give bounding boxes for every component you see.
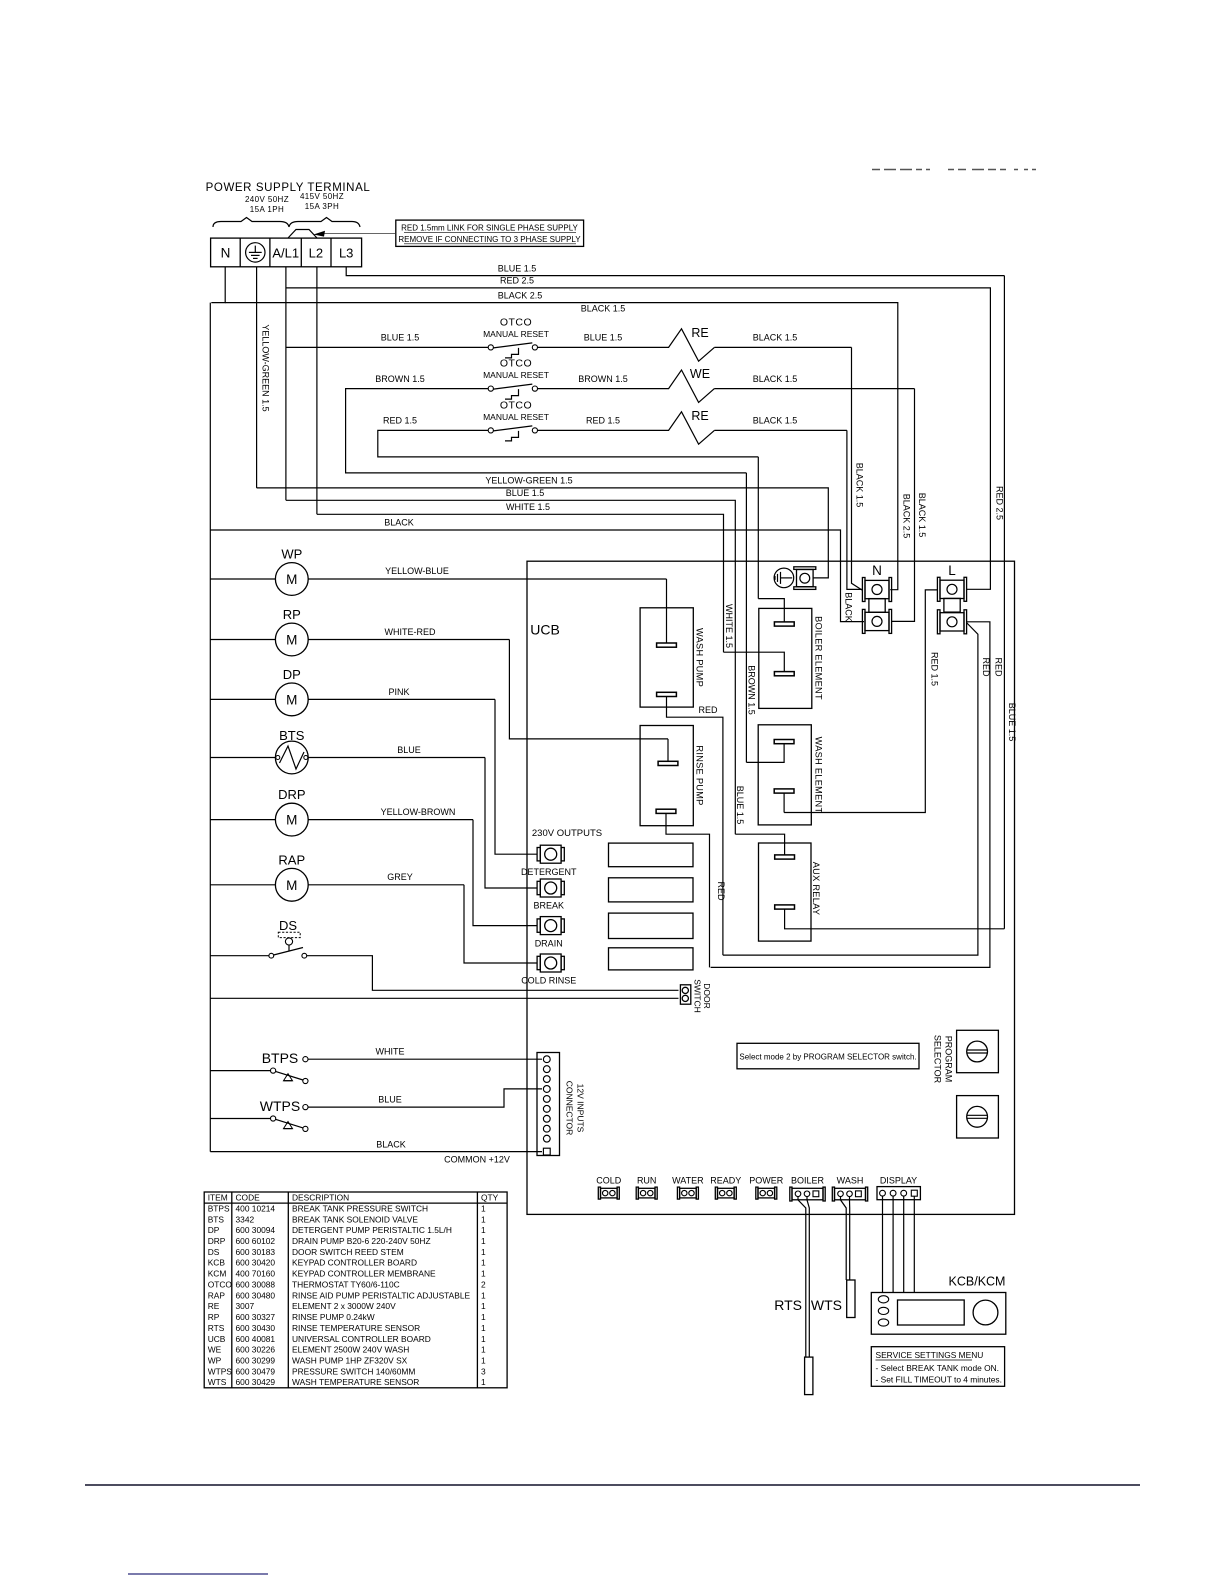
svg-text:WTS: WTS xyxy=(811,1297,842,1313)
svg-text:UCB: UCB xyxy=(208,1334,226,1344)
wire WHITE 1.5 run (L2) xyxy=(317,514,724,652)
wire RED 2.5 run to L terminal xyxy=(286,288,991,589)
svg-text:M: M xyxy=(286,692,297,707)
wire BLUE WTPS to 12V connector xyxy=(308,1089,542,1107)
svg-text:RAP: RAP xyxy=(278,852,305,867)
svg-text:WHITE: WHITE xyxy=(376,1047,405,1057)
svg-text:WATER: WATER xyxy=(672,1175,704,1185)
svg-text:BREAK TANK SOLENOID VALVE: BREAK TANK SOLENOID VALVE xyxy=(292,1214,418,1224)
connector DRAIN xyxy=(540,917,561,935)
boiler element top contact fed by RED riser xyxy=(758,599,784,623)
wire A/L1 down xyxy=(285,267,287,501)
wire rail to DRP xyxy=(210,819,275,821)
svg-text:600 60102: 600 60102 xyxy=(236,1236,276,1246)
blank rectangle 2 xyxy=(609,878,694,902)
wire BLUE down to BREAK xyxy=(485,758,537,889)
sensor RTS probe body xyxy=(805,1357,813,1395)
svg-text:OTCO: OTCO xyxy=(500,358,532,370)
svg-text:1: 1 xyxy=(481,1377,486,1387)
terminal earth symbol xyxy=(246,243,265,262)
riser BROWN down xyxy=(745,473,747,763)
svg-text:BLACK 2.5: BLACK 2.5 xyxy=(902,494,912,539)
svg-text:BLACK 1.5: BLACK 1.5 xyxy=(855,463,865,508)
wire OTCO3 output to N top xyxy=(847,430,863,589)
svg-text:KCM: KCM xyxy=(208,1269,227,1279)
svg-text:AUX RELAY: AUX RELAY xyxy=(811,862,821,916)
svg-text:POWER: POWER xyxy=(749,1175,784,1185)
wire BLUE 1.5 A/L1 to OTCO1 xyxy=(286,346,488,348)
svg-text:N: N xyxy=(872,563,882,578)
svg-text:YELLOW-BROWN: YELLOW-BROWN xyxy=(381,807,456,817)
svg-text:DRP: DRP xyxy=(278,787,305,802)
wire N down xyxy=(211,267,225,303)
svg-text:RED 1.5mm LINK FOR SINGLE PHAS: RED 1.5mm LINK FOR SINGLE PHASE SUPPLY xyxy=(401,224,578,233)
wire RED U-return OTCO3 xyxy=(378,430,759,457)
arrow from note box to link xyxy=(318,233,395,235)
wire earth yellow-green down xyxy=(256,267,258,488)
svg-text:600 30094: 600 30094 xyxy=(236,1225,276,1235)
svg-text:DRAIN: DRAIN xyxy=(535,938,563,948)
wire GREY down to COLD RINSE xyxy=(464,885,537,963)
svg-text:3342: 3342 xyxy=(236,1214,255,1224)
svg-text:BTPS: BTPS xyxy=(262,1050,299,1066)
wire OTCO2/WE output to N bottom right xyxy=(892,389,915,622)
note box select mode 2 xyxy=(737,1043,919,1069)
svg-text:YELLOW-BLUE: YELLOW-BLUE xyxy=(385,566,449,576)
svg-text:RED: RED xyxy=(993,657,1003,677)
program selector switch 2 xyxy=(957,1096,999,1138)
terminal L link xyxy=(944,598,960,612)
faint header dashes xyxy=(872,169,880,171)
blank rectangle 1 xyxy=(609,843,694,867)
svg-text:Select mode 2 by PROGRAM SELEC: Select mode 2 by PROGRAM SELECTOR switch… xyxy=(739,1053,916,1062)
wire RED wash pump output xyxy=(667,696,723,955)
wire PINK from DP xyxy=(308,698,495,700)
svg-text:BLACK 1.5: BLACK 1.5 xyxy=(753,333,798,343)
svg-text:M: M xyxy=(286,572,297,587)
link (removable) between A/L1 and L2 xyxy=(288,230,317,239)
svg-text:M: M xyxy=(286,633,297,648)
svg-text:CONNECTOR: CONNECTOR xyxy=(565,1081,575,1136)
svg-text:COMMON +12V: COMMON +12V xyxy=(444,1154,510,1164)
svg-text:SWITCH: SWITCH xyxy=(693,979,703,1013)
wire rail to WTPS xyxy=(210,1118,270,1120)
svg-text:MANUAL RESET: MANUAL RESET xyxy=(483,370,549,380)
svg-text:OTCO: OTCO xyxy=(500,316,532,328)
svg-text:KEYPAD CONTROLLER BOARD: KEYPAD CONTROLLER BOARD xyxy=(292,1258,417,1268)
service settings menu box xyxy=(871,1347,1004,1387)
svg-text:CODE: CODE xyxy=(236,1193,261,1203)
svg-text:1: 1 xyxy=(481,1345,486,1355)
svg-text:600 30429: 600 30429 xyxy=(236,1377,276,1387)
svg-text:BLUE: BLUE xyxy=(397,745,421,755)
svg-text:RE: RE xyxy=(691,326,708,340)
svg-text:SELECTOR: SELECTOR xyxy=(933,1035,943,1084)
svg-text:L: L xyxy=(948,563,956,578)
svg-text:DOOR: DOOR xyxy=(702,983,712,1009)
svg-text:600 30299: 600 30299 xyxy=(236,1356,276,1366)
svg-text:1: 1 xyxy=(481,1203,486,1213)
wire BLUE from BTS xyxy=(308,757,485,759)
svg-text:600 30430: 600 30430 xyxy=(236,1323,276,1333)
svg-text:600 30479: 600 30479 xyxy=(236,1366,276,1376)
svg-text:BOILER: BOILER xyxy=(791,1175,825,1185)
parts table xyxy=(204,1192,507,1388)
sensor RTS probe wires xyxy=(798,1197,806,1358)
wire BLACK 1.5 out of RE xyxy=(714,346,851,348)
svg-text:RE: RE xyxy=(208,1301,220,1311)
relay WASH ELEMENT xyxy=(758,725,811,825)
svg-text:REMOVE IF CONNECTING TO 3 PHAS: REMOVE IF CONNECTING TO 3 PHASE SUPPLY xyxy=(398,235,581,244)
svg-text:PINK: PINK xyxy=(388,687,409,697)
heating element RE xyxy=(538,412,715,444)
svg-text:DETERGENT: DETERGENT xyxy=(521,867,577,877)
footer rule xyxy=(85,1484,1140,1486)
wire BROWN U-return OTCO2 xyxy=(346,389,747,473)
svg-text:600 30480: 600 30480 xyxy=(236,1290,276,1300)
svg-text:600 30327: 600 30327 xyxy=(236,1312,276,1322)
wire OTCO1 output to N top (diagonal) xyxy=(852,347,863,590)
wash element top contact fed by BROWN xyxy=(774,740,794,744)
svg-text:BLACK 2.5: BLACK 2.5 xyxy=(498,290,543,300)
connector COLD RINSE xyxy=(540,954,561,972)
svg-text:RP: RP xyxy=(283,607,301,622)
svg-text:RED 2.5: RED 2.5 xyxy=(500,276,534,286)
svg-text:MANUAL RESET: MANUAL RESET xyxy=(483,329,549,339)
svg-text:BLUE: BLUE xyxy=(378,1094,402,1104)
wire WHITE-RED down to rinse pump relay xyxy=(509,640,668,739)
svg-text:BTPS: BTPS xyxy=(208,1203,230,1213)
svg-text:RTS: RTS xyxy=(208,1323,225,1333)
connector BREAK xyxy=(540,879,561,897)
svg-text:DETERGENT PUMP PERISTALTIC 1.5: DETERGENT PUMP PERISTALTIC 1.5L/H xyxy=(292,1225,452,1235)
relay BOILER ELEMENT xyxy=(759,608,812,708)
svg-text:RP: RP xyxy=(208,1312,220,1322)
earth terminal block xyxy=(797,570,814,587)
wire L2 down xyxy=(316,267,318,515)
svg-text:240V 50HZ: 240V 50HZ xyxy=(245,195,289,204)
svg-text:OTCO: OTCO xyxy=(500,399,532,411)
svg-text:RINSE PUMP 0.24kW: RINSE PUMP 0.24kW xyxy=(292,1312,375,1322)
svg-text:1: 1 xyxy=(481,1236,486,1246)
svg-text:WE: WE xyxy=(690,367,710,381)
svg-text:12V INPUTS: 12V INPUTS xyxy=(576,1084,586,1133)
wire BLUE 1.5 run (A/L1) xyxy=(286,500,735,834)
svg-text:ELEMENT 2500W 240V WASH: ELEMENT 2500W 240V WASH xyxy=(292,1345,409,1355)
svg-text:BLUE 1.5: BLUE 1.5 xyxy=(584,333,623,343)
svg-text:WASH PUMP: WASH PUMP xyxy=(695,628,705,687)
svg-text:ITEM: ITEM xyxy=(208,1193,228,1203)
svg-text:WASH PUMP 1HP ZF320V SX: WASH PUMP 1HP ZF320V SX xyxy=(292,1356,408,1366)
wire rail to RP xyxy=(210,639,275,641)
svg-text:600 30088: 600 30088 xyxy=(236,1279,276,1289)
svg-text:BREAK TANK PRESSURE SWITCH: BREAK TANK PRESSURE SWITCH xyxy=(292,1203,428,1213)
svg-text:PRESSURE SWITCH 140/60MM: PRESSURE SWITCH 140/60MM xyxy=(292,1366,415,1376)
wire rail to WP xyxy=(210,578,275,580)
svg-text:1: 1 xyxy=(481,1356,486,1366)
svg-text:KCB/KCM: KCB/KCM xyxy=(949,1275,1006,1289)
svg-text:BLACK 1.5: BLACK 1.5 xyxy=(581,304,626,314)
svg-text:MANUAL RESET: MANUAL RESET xyxy=(483,412,549,422)
svg-text:WHITE-RED: WHITE-RED xyxy=(385,627,436,637)
svg-text:RED 1.5: RED 1.5 xyxy=(586,416,620,426)
terminal L bottom xyxy=(940,613,964,631)
svg-text:BLACK: BLACK xyxy=(376,1139,406,1149)
svg-text:THERMOSTAT TY60/6-110C: THERMOSTAT TY60/6-110C xyxy=(292,1279,400,1289)
heating element RE xyxy=(538,329,715,361)
svg-text:RE: RE xyxy=(691,409,708,423)
svg-text:WASH TEMPERATURE SENSOR: WASH TEMPERATURE SENSOR xyxy=(292,1377,419,1387)
wire GREY from RAP xyxy=(308,884,464,886)
wire BLACK 2.5 run to N terminal xyxy=(225,303,898,590)
wire YELLOW-BLUE from WP xyxy=(308,578,666,580)
wire BLACK 1.5 out of RE xyxy=(714,429,847,431)
svg-text:BLUE 1.5: BLUE 1.5 xyxy=(506,488,545,498)
svg-text:WHITE 1.5: WHITE 1.5 xyxy=(506,502,550,512)
svg-text:15A 3PH: 15A 3PH xyxy=(305,202,339,211)
svg-text:WTPS: WTPS xyxy=(260,1098,300,1114)
terminal N link xyxy=(869,599,885,613)
svg-text:BROWN 1.5: BROWN 1.5 xyxy=(375,374,425,384)
svg-text:1: 1 xyxy=(481,1334,486,1344)
svg-text:SERVICE SETTINGS MENU: SERVICE SETTINGS MENU xyxy=(876,1350,984,1360)
svg-text:COLD RINSE: COLD RINSE xyxy=(521,976,576,986)
sensor WTS probe body xyxy=(847,1280,855,1318)
svg-text:DISPLAY: DISPLAY xyxy=(880,1175,917,1185)
svg-text:M: M xyxy=(286,878,297,893)
svg-text:600 30183: 600 30183 xyxy=(236,1247,276,1257)
brace left (single phase range) xyxy=(213,218,289,228)
wire rail to door switch connector xyxy=(210,997,678,999)
svg-text:3007: 3007 xyxy=(236,1301,255,1311)
wash element bottom contact to RED 1.5 xyxy=(774,789,794,793)
svg-text:WTS: WTS xyxy=(208,1377,227,1387)
svg-text:DESCRIPTION: DESCRIPTION xyxy=(292,1193,349,1203)
wire WHITE-RED from RP xyxy=(308,639,509,641)
wire DS to door switch connector xyxy=(307,956,679,991)
wire BLACK 1.5 out of WE xyxy=(714,388,914,390)
wire rail to RAP xyxy=(210,884,275,886)
blank rectangle 3 (bold) xyxy=(609,913,694,938)
rinse pump relay top contact xyxy=(667,739,669,762)
svg-text:BTS: BTS xyxy=(208,1214,225,1224)
wire BLACK common run xyxy=(210,530,864,622)
svg-text:WTPS: WTPS xyxy=(208,1366,233,1376)
svg-text:READY: READY xyxy=(710,1175,741,1185)
wire PINK down to DETERGENT xyxy=(495,699,537,854)
svg-text:1: 1 xyxy=(481,1323,486,1333)
svg-text:DRAIN PUMP B20-6 220-240V 50HZ: DRAIN PUMP B20-6 220-240V 50HZ xyxy=(292,1236,431,1246)
svg-text:DP: DP xyxy=(208,1225,220,1235)
svg-text:DS: DS xyxy=(208,1247,220,1257)
svg-text:YELLOW-GREEN 1.5: YELLOW-GREEN 1.5 xyxy=(261,324,271,411)
svg-text:600 40081: 600 40081 xyxy=(236,1334,276,1344)
svg-text:- Select BREAK TANK mode ON.: - Select BREAK TANK mode ON. xyxy=(876,1363,1000,1373)
connector DOOR SWITCH xyxy=(680,985,690,1004)
svg-text:L2: L2 xyxy=(309,246,323,261)
svg-text:WHITE 1.5: WHITE 1.5 xyxy=(724,604,734,648)
svg-text:RED 1.5: RED 1.5 xyxy=(929,652,939,686)
display wires to KCB xyxy=(882,1196,884,1292)
svg-text:WASH: WASH xyxy=(837,1175,864,1185)
svg-text:RTS: RTS xyxy=(774,1297,802,1313)
UCB universal controller board box xyxy=(527,561,1015,1214)
wire BLACK rail to 12V connector xyxy=(210,1151,542,1153)
wash pump relay top contact xyxy=(666,579,668,643)
svg-text:UCB: UCB xyxy=(530,622,560,638)
svg-text:- Set FILL TIMEOUT to 4 minute: - Set FILL TIMEOUT to 4 minutes. xyxy=(876,1375,1002,1385)
svg-text:BROWN 1.5: BROWN 1.5 xyxy=(747,665,757,715)
svg-text:BLUE 1.5: BLUE 1.5 xyxy=(735,786,745,825)
svg-text:1: 1 xyxy=(481,1290,486,1300)
svg-text:1: 1 xyxy=(481,1247,486,1257)
connector DETERGENT xyxy=(540,845,561,863)
svg-text:RED 1.5: RED 1.5 xyxy=(383,416,417,426)
svg-text:WE: WE xyxy=(208,1345,222,1355)
wire YELLOW-BROWN down to DRAIN xyxy=(473,820,537,926)
svg-text:1: 1 xyxy=(481,1214,486,1224)
boiler element bottom contact fed by WHITE xyxy=(724,652,785,672)
svg-text:400 10214: 400 10214 xyxy=(236,1203,276,1213)
wire BLUE 1.5 from L3 down right side xyxy=(1003,276,1005,929)
aux relay bottom contact to BLUE (L3) xyxy=(775,905,795,909)
svg-text:BLACK 1.5: BLACK 1.5 xyxy=(753,416,798,426)
wire rail to BTS xyxy=(210,757,275,759)
svg-text:ELEMENT 2 x 3000W 240V: ELEMENT 2 x 3000W 240V xyxy=(292,1301,396,1311)
relay RINSE PUMP xyxy=(640,726,693,826)
svg-text:DS: DS xyxy=(279,918,297,933)
brace right (three phase range) xyxy=(289,218,360,228)
svg-text:3: 3 xyxy=(481,1366,486,1376)
svg-text:RED: RED xyxy=(698,705,718,715)
terminal N bottom xyxy=(865,612,889,630)
svg-text:DRP: DRP xyxy=(208,1236,226,1246)
svg-text:RED 2.5: RED 2.5 xyxy=(995,486,1005,520)
svg-text:1: 1 xyxy=(481,1301,486,1311)
svg-text:BOILER ELEMENT: BOILER ELEMENT xyxy=(814,616,824,700)
wire L bottom right to rinse pump (RED) xyxy=(711,622,990,968)
svg-text:WP: WP xyxy=(281,547,302,562)
riser RED down to boiler xyxy=(757,457,759,599)
svg-text:BROWN 1.5: BROWN 1.5 xyxy=(578,374,628,384)
relay AUX RELAY xyxy=(759,843,812,941)
svg-text:L3: L3 xyxy=(339,246,353,261)
svg-text:600 30420: 600 30420 xyxy=(236,1258,276,1268)
svg-text:QTY: QTY xyxy=(481,1193,499,1203)
svg-text:BLUE 1.5: BLUE 1.5 xyxy=(1007,703,1017,742)
earth symbol at UCB xyxy=(774,568,794,588)
wire rinse pump output xyxy=(666,813,710,967)
note box: RED 1.5mm LINK xyxy=(396,220,584,246)
svg-text:DP: DP xyxy=(283,667,301,682)
svg-text:600 30226: 600 30226 xyxy=(236,1345,276,1355)
sensor WTS probe wires xyxy=(841,1197,847,1280)
svg-text:OTCO: OTCO xyxy=(208,1279,233,1289)
svg-text:BLACK 1.5: BLACK 1.5 xyxy=(753,374,798,384)
svg-text:BLACK: BLACK xyxy=(843,592,853,622)
connector 12V INPUTS xyxy=(537,1053,560,1156)
svg-text:A/L1: A/L1 xyxy=(272,246,299,261)
svg-text:2: 2 xyxy=(481,1279,486,1289)
svg-text:1: 1 xyxy=(481,1258,486,1268)
svg-text:RUN: RUN xyxy=(637,1175,657,1185)
left rail (common black) xyxy=(209,303,211,1152)
footer link line xyxy=(128,1573,268,1575)
wire L bottom diagonal to wash pump (RED) xyxy=(723,623,978,956)
svg-text:DOOR SWITCH REED STEM: DOOR SWITCH REED STEM xyxy=(292,1247,404,1257)
rinse pump relay bottom contact xyxy=(656,809,676,813)
wire WHITE BTPS to 12V connector xyxy=(308,1058,542,1060)
svg-text:1: 1 xyxy=(481,1312,486,1322)
svg-text:RINSE TEMPERATURE SENSOR: RINSE TEMPERATURE SENSOR xyxy=(292,1323,420,1333)
wire L3 down xyxy=(346,267,1004,276)
svg-text:BLACK 1.5: BLACK 1.5 xyxy=(917,493,927,538)
svg-text:RED: RED xyxy=(716,881,726,901)
svg-text:RINSE PUMP: RINSE PUMP xyxy=(695,745,705,805)
svg-text:415V 50HZ: 415V 50HZ xyxy=(300,192,344,201)
svg-text:M: M xyxy=(286,813,297,828)
svg-text:BLUE 1.5: BLUE 1.5 xyxy=(381,333,420,343)
svg-text:COLD: COLD xyxy=(596,1175,622,1185)
aux relay top contact fed by BLUE 1.5 xyxy=(735,834,784,855)
wire YELLOW-BROWN from DRP xyxy=(308,819,473,821)
svg-text:KCB: KCB xyxy=(208,1258,226,1268)
svg-text:1: 1 xyxy=(481,1225,486,1235)
svg-text:WASH ELEMENT: WASH ELEMENT xyxy=(814,737,824,814)
svg-text:WP: WP xyxy=(208,1356,222,1366)
svg-text:UNIVERSAL CONTROLLER BOARD: UNIVERSAL CONTROLLER BOARD xyxy=(292,1334,431,1344)
relay WASH PUMP xyxy=(640,608,693,707)
blank rectangle 4 xyxy=(609,948,694,970)
wire rail to BTPS xyxy=(210,1070,270,1072)
wire YELLOW-GREEN 1.5 run xyxy=(257,488,829,578)
svg-text:400 70160: 400 70160 xyxy=(236,1269,276,1279)
svg-text:N: N xyxy=(221,246,231,261)
svg-text:BLACK: BLACK xyxy=(384,518,414,528)
svg-text:1: 1 xyxy=(481,1269,486,1279)
svg-text:POWER SUPPLY TERMINAL: POWER SUPPLY TERMINAL xyxy=(206,182,371,194)
program selector switch 1 xyxy=(957,1030,999,1072)
svg-text:RAP: RAP xyxy=(208,1290,226,1300)
terminal block power supply xyxy=(211,238,362,267)
svg-text:BLUE 1.5: BLUE 1.5 xyxy=(498,263,537,273)
heating element WE xyxy=(538,370,715,402)
wash pump relay bottom contact xyxy=(657,692,677,696)
svg-text:BREAK: BREAK xyxy=(533,901,564,911)
svg-text:PROGRAM: PROGRAM xyxy=(944,1036,954,1083)
svg-text:15A 1PH: 15A 1PH xyxy=(250,205,284,214)
wire rail to DP xyxy=(210,698,275,700)
svg-text:RINSE AID PUMP PERISTALTIC ADJ: RINSE AID PUMP PERISTALTIC ADJUSTABLE xyxy=(292,1290,471,1300)
svg-text:YELLOW-GREEN 1.5: YELLOW-GREEN 1.5 xyxy=(485,476,572,486)
svg-text:KEYPAD CONTROLLER MEMBRANE: KEYPAD CONTROLLER MEMBRANE xyxy=(292,1269,436,1279)
svg-text:GREY: GREY xyxy=(387,872,413,882)
wire rail to DS xyxy=(210,955,269,957)
wire L top left to wash element (RED 1.5) xyxy=(784,590,937,813)
svg-text:230V OUTPUTS: 230V OUTPUTS xyxy=(532,828,602,839)
